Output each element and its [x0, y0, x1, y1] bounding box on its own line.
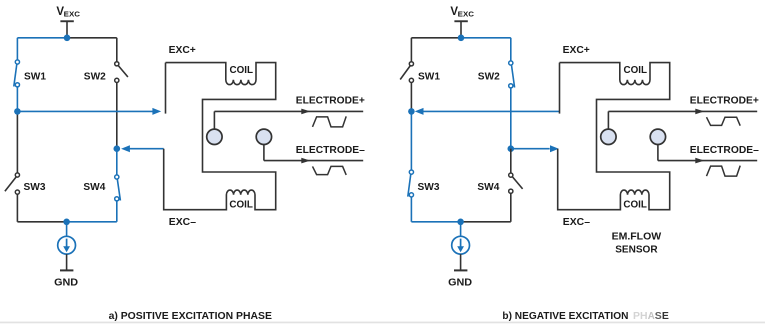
switch SW1 closed (circuit a): [15, 60, 19, 64]
wire SW2 upper lead (circuit a): [116, 38, 118, 62]
svg-text:EM.FLOW: EM.FLOW: [612, 230, 662, 242]
wire current source upper lead (circuit b): [460, 222, 462, 237]
wire top rail right segment (circuit a): [67, 37, 117, 39]
wire SW4 lower lead (circuit a): [116, 201, 118, 222]
wire bottom rail right segment (circuit a): [67, 221, 117, 223]
svg-text:COIL: COIL: [229, 199, 253, 211]
wire SW1 lower lead (circuit b): [410, 83, 412, 112]
svg-text:a) POSITIVE EXCITATION PHASE: a) POSITIVE EXCITATION PHASE: [109, 310, 272, 322]
wire top rail left segment (circuit a): [17, 37, 67, 39]
svg-text:b) NEGATIVE EXCITATION: b) NEGATIVE EXCITATION: [502, 310, 628, 322]
svg-text:SW1: SW1: [418, 71, 440, 83]
wire bottom rail left segment (circuit a): [17, 221, 66, 223]
wire current source lower lead (circuit a): [66, 254, 68, 269]
node current source junction (circuit b): [457, 219, 464, 226]
node VEXC junction (circuit a): [64, 35, 71, 42]
electrode E2 stem (circuit a): [263, 144, 265, 160]
electrode E2 (circuit a): [256, 129, 271, 144]
wire SW3 lower lead (circuit a): [16, 194, 18, 222]
switch SW4 closed (circuit a): [115, 175, 119, 179]
svg-text:EXC–: EXC–: [169, 216, 196, 228]
switch SW1 open (circuit b): [409, 62, 413, 66]
svg-text:SW3: SW3: [24, 181, 46, 193]
svg-text:EXC+: EXC+: [563, 44, 590, 56]
wire ELECTRODE- output (circuit a): [264, 160, 363, 162]
svg-text:COIL: COIL: [624, 64, 648, 76]
wire bottom rail left segment (circuit b): [411, 221, 460, 223]
wire ELECTRODE+ output (circuit a): [214, 110, 363, 112]
wire SW3 lower lead (circuit b): [410, 197, 412, 222]
arrow ELECTRODE- signal direction (circuit b): [695, 158, 704, 164]
ground (circuit a): [60, 269, 73, 271]
coil L1 top with sensor frame (circuit a): [164, 63, 276, 210]
waveform ELECTRODE- (circuit a): [313, 166, 347, 175]
electrode E1 stem (circuit a): [213, 111, 215, 129]
waveform ELECTRODE+ (circuit b): [707, 117, 741, 126]
electrode E1 stem (circuit b): [607, 111, 609, 129]
switch SW2 open (circuit a): [115, 62, 119, 66]
svg-text:SW4: SW4: [477, 181, 499, 193]
wire top rail left segment (circuit b): [411, 37, 461, 39]
arrow EXC- current direction (circuit b): [550, 145, 559, 152]
node EXC- junction at SW4 (circuit b): [508, 145, 515, 152]
power symbol VEXC bar (circuit b): [454, 20, 467, 22]
svg-text:COIL: COIL: [230, 64, 254, 76]
wire SW3 upper lead (circuit b): [410, 111, 412, 173]
svg-text:SW1: SW1: [24, 71, 46, 83]
arrow ELECTRODE+ signal direction (circuit a): [301, 109, 310, 115]
svg-text:COIL: COIL: [623, 199, 647, 211]
node EXC+ junction at SW1 (circuit a): [14, 108, 21, 115]
wire ELECTRODE+ output (circuit b): [608, 110, 757, 112]
svg-text:PH: PH: [633, 310, 648, 322]
wire EXC- feed (circuit b): [511, 148, 550, 150]
svg-text:SW2: SW2: [84, 71, 106, 83]
svg-text:S: S: [655, 310, 662, 322]
wire current source lower lead (circuit b): [460, 254, 462, 269]
arrow EXC- current direction (circuit a): [121, 145, 130, 152]
wire SW4 upper lead (circuit b): [510, 149, 512, 173]
waveform ELECTRODE+ (circuit a): [313, 116, 347, 127]
svg-text:E: E: [662, 310, 669, 322]
arrow ELECTRODE- signal direction (circuit a): [301, 158, 310, 164]
wire VEXC stub (circuit a): [66, 21, 68, 38]
wire SW4 upper lead (circuit a): [116, 149, 118, 175]
wire top rail right segment (circuit b): [461, 37, 511, 39]
wire SW2 upper lead (circuit b): [510, 38, 512, 62]
wire ELECTRODE- output (circuit b): [658, 160, 757, 162]
svg-text:GND: GND: [448, 276, 472, 288]
svg-text:SW3: SW3: [418, 181, 440, 193]
electrode E2 (circuit b): [650, 129, 665, 144]
svg-text:EXC: EXC: [458, 10, 475, 19]
wire SW1 upper lead (circuit b): [410, 38, 412, 62]
wire SW3 upper lead (circuit a): [16, 111, 18, 173]
svg-text:EXC–: EXC–: [563, 216, 590, 228]
electrode E2 stem (circuit b): [657, 144, 659, 160]
waveform ELECTRODE- (circuit b): [707, 166, 741, 177]
wire sensor EXC+ input stub (circuit a): [165, 63, 167, 114]
svg-text:ELECTRODE+: ELECTRODE+: [690, 95, 759, 107]
wire EXC+ return (circuit b): [420, 110, 559, 112]
switch SW3 closed (circuit b): [409, 170, 413, 174]
bottom divider rule: [0, 322, 765, 324]
arrow EXC+ current direction (circuit b): [415, 108, 424, 115]
svg-text:SW2: SW2: [478, 71, 500, 83]
svg-text:ELECTRODE+: ELECTRODE+: [296, 95, 365, 107]
switch SW2 closed (circuit b): [509, 61, 513, 65]
wire SW2 lower lead (circuit b): [510, 88, 512, 149]
power symbol VEXC bar (circuit a): [60, 20, 73, 22]
switch SW4 open (circuit b): [509, 173, 513, 177]
wire current source upper lead (circuit a): [66, 222, 68, 237]
wire SW1 upper lead (circuit a): [16, 38, 18, 62]
electrode E1 (circuit a): [207, 129, 222, 144]
wire EXC- return (circuit a): [129, 148, 164, 150]
coil L1 top with sensor frame (circuit b): [558, 63, 670, 210]
svg-text:SENSOR: SENSOR: [615, 243, 658, 255]
arrow EXC+ current direction (circuit a): [152, 108, 161, 115]
svg-text:GND: GND: [54, 276, 78, 288]
electrode E1 (circuit b): [601, 129, 616, 144]
wire SW2 lower lead (circuit a): [116, 83, 118, 149]
svg-text:EXC: EXC: [64, 10, 81, 19]
svg-text:EXC+: EXC+: [169, 44, 196, 56]
node VEXC junction (circuit b): [458, 35, 465, 42]
ground (circuit b): [454, 269, 467, 271]
node current source junction (circuit a): [63, 219, 70, 226]
wire EXC+ feed (circuit a): [17, 110, 152, 112]
wire SW1 lower lead (circuit a): [16, 87, 18, 112]
wire bottom rail right segment (circuit b): [461, 221, 511, 223]
current source I_EXC (circuit b): [452, 236, 470, 254]
node EXC+ junction at SW1 (circuit b): [408, 108, 415, 115]
svg-text:ELECTRODE–: ELECTRODE–: [690, 144, 759, 156]
node EXC- junction at SW4 (circuit a): [114, 145, 121, 152]
wire VEXC stub (circuit b): [460, 21, 462, 38]
wire SW4 lower lead (circuit b): [510, 193, 512, 222]
wire sensor EXC+ input stub (circuit b): [559, 63, 561, 114]
svg-text:SW4: SW4: [83, 181, 105, 193]
svg-text:ELECTRODE–: ELECTRODE–: [296, 144, 365, 156]
current source I_EXC (circuit a): [58, 236, 76, 254]
switch SW3 open (circuit a): [15, 173, 19, 177]
arrow ELECTRODE+ signal direction (circuit b): [695, 109, 704, 115]
